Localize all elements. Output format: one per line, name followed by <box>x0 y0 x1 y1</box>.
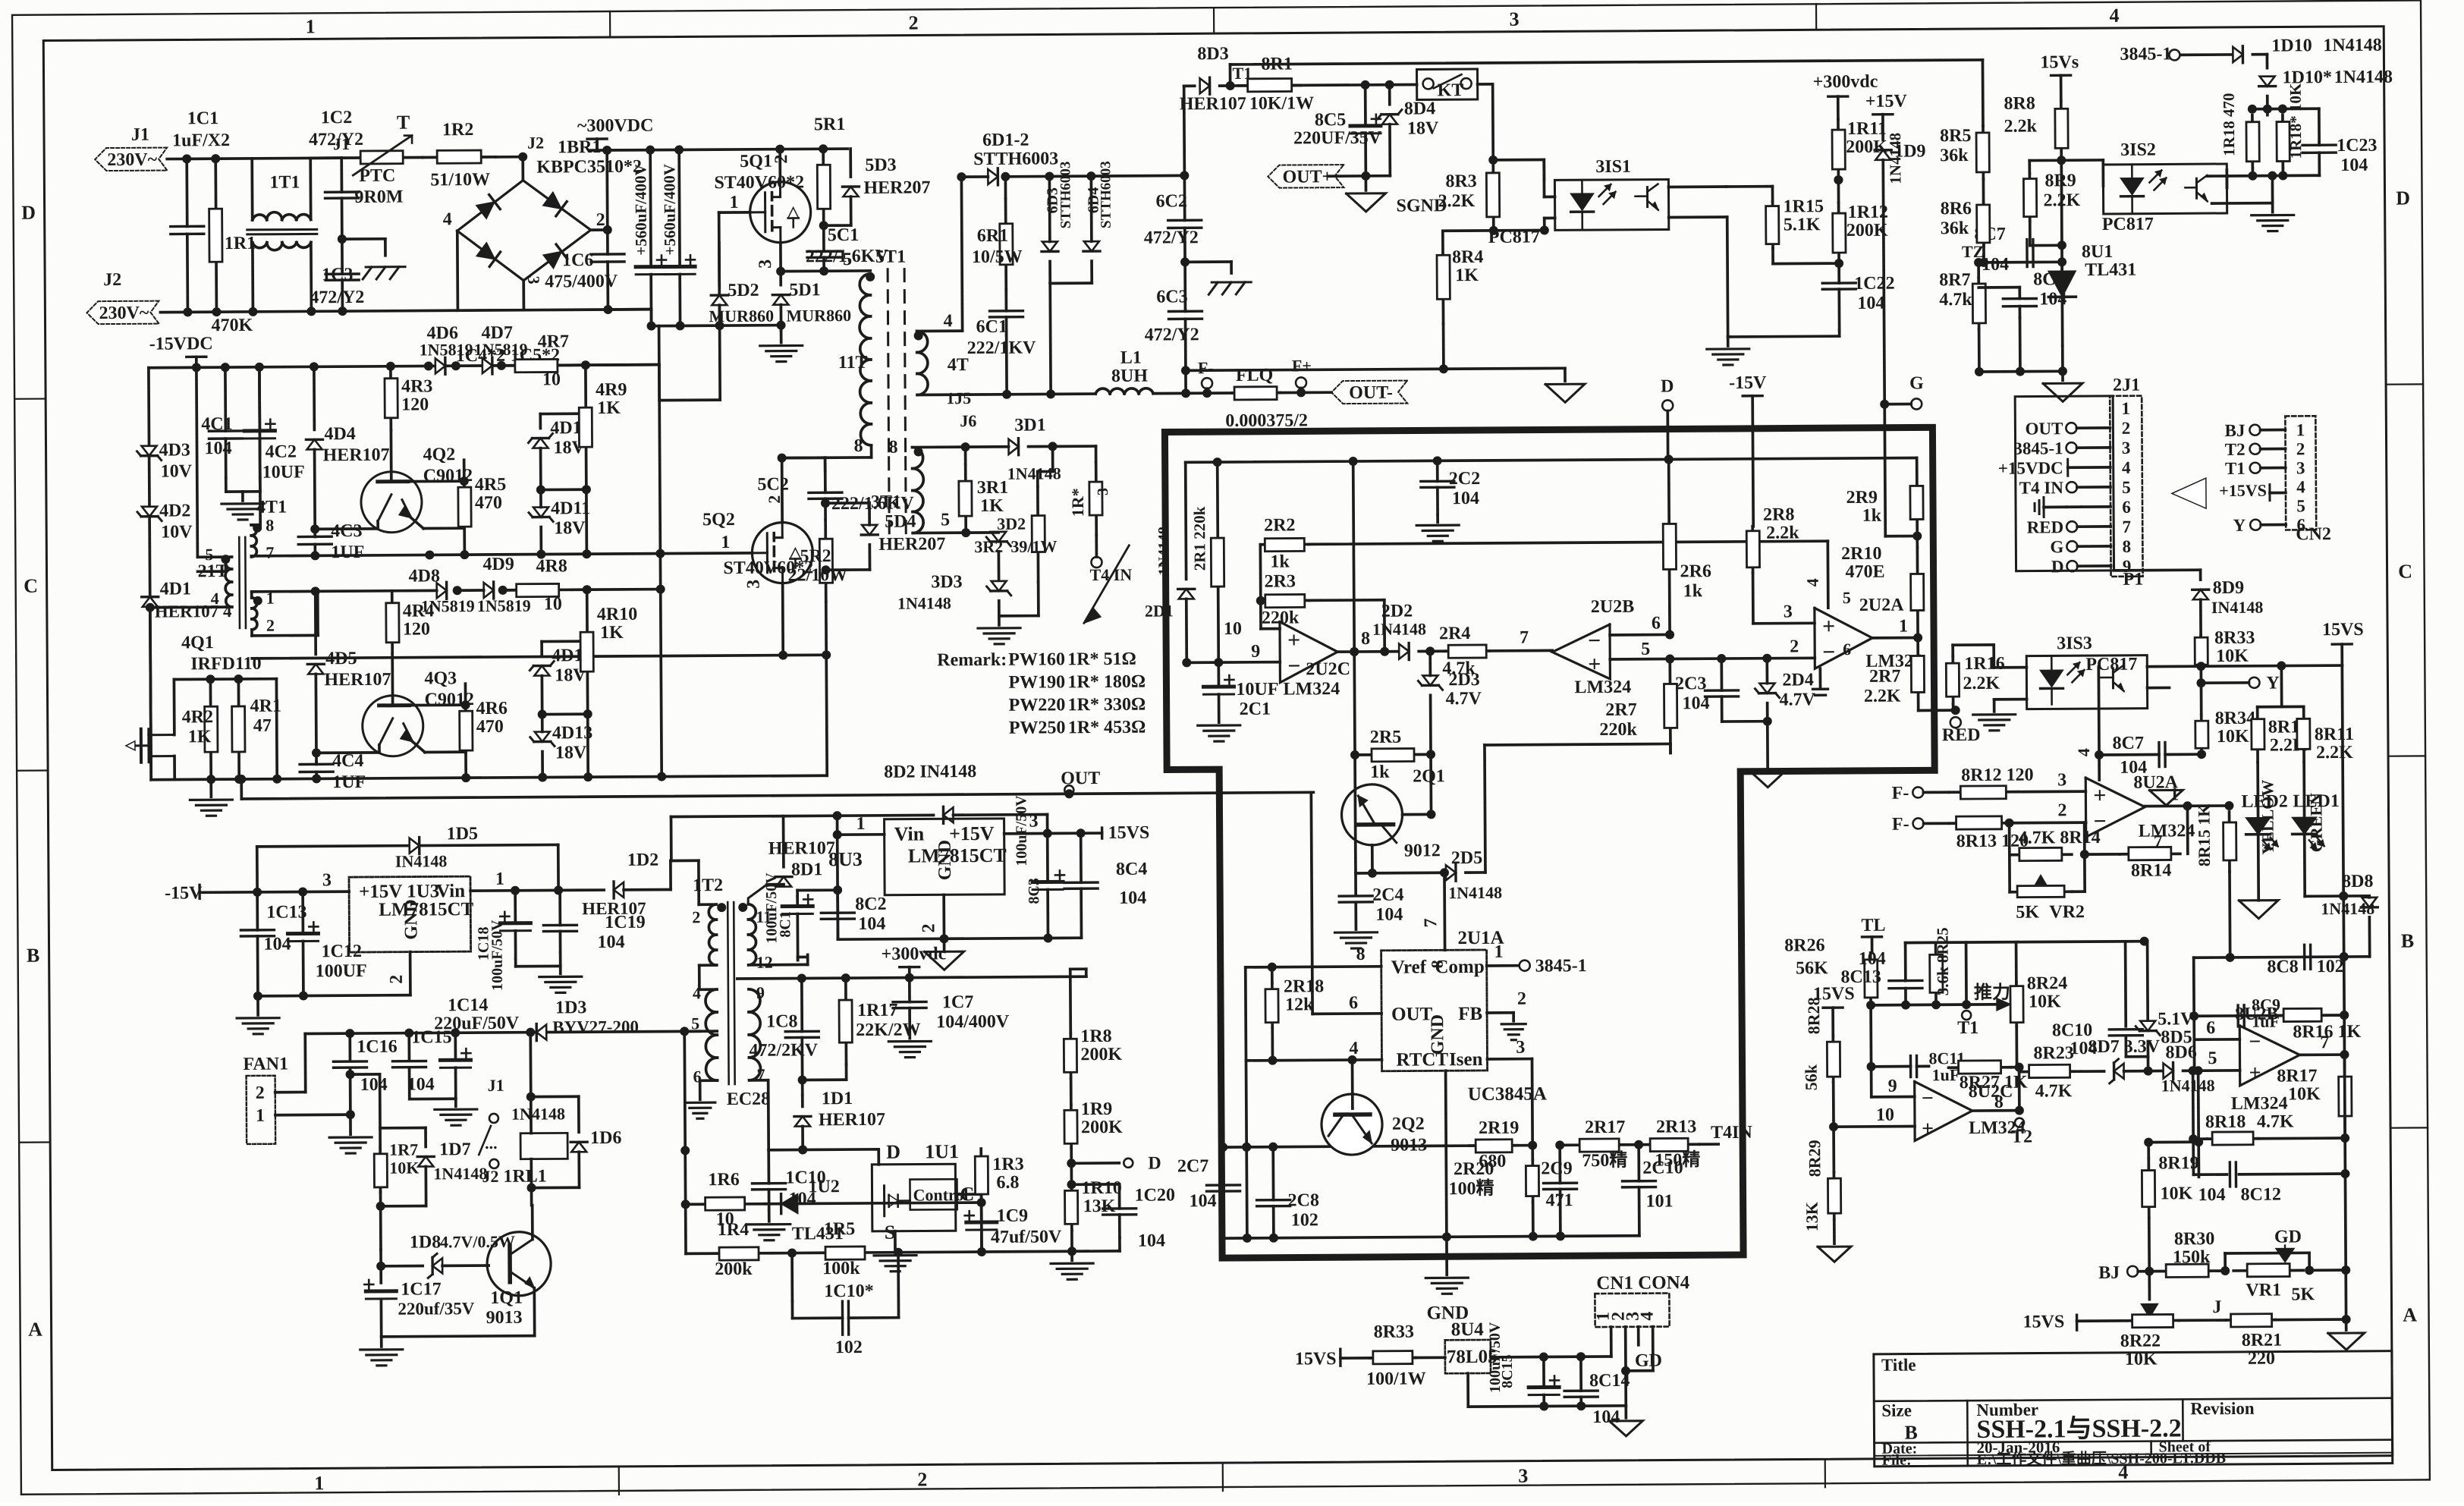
wire 2C4 top <box>1355 755 1356 894</box>
svg-text:+15V: +15V <box>949 822 995 844</box>
diode 1D10 <box>2233 36 2382 63</box>
svg-text:4D11: 4D11 <box>551 498 590 518</box>
svg-text:J2: J2 <box>527 134 544 152</box>
capacitor 8C13 <box>1840 942 1922 1005</box>
svg-text:8C4: 8C4 <box>1116 860 1148 879</box>
resistor 8R33 100 <box>1366 1322 1426 1388</box>
wire 6R1 top <box>961 172 1010 199</box>
svg-text:1C6: 1C6 <box>562 250 594 270</box>
svg-text:22/10W: 22/10W <box>787 565 847 585</box>
diode 1D5 <box>395 824 479 871</box>
svg-text:1C2: 1C2 <box>321 108 353 127</box>
capacitor 5C2 <box>757 457 914 520</box>
svg-text:1C12: 1C12 <box>322 942 363 961</box>
diode 6D1-2 <box>961 130 1058 185</box>
svg-text:D: D <box>2051 557 2064 576</box>
wire box top rail <box>1186 453 1917 467</box>
label CN1 CON4 <box>1596 1272 1690 1294</box>
wire <box>798 957 808 960</box>
regulator 8U3 LM7815CT <box>828 819 1007 895</box>
svg-text:5K: 5K <box>2291 1284 2315 1304</box>
svg-text:1k: 1k <box>1683 581 1703 601</box>
transistor 3IS3 <box>2101 665 2123 691</box>
svg-text:2R10: 2R10 <box>1841 544 1882 564</box>
diode 2D2 <box>1372 601 1426 659</box>
svg-text:2D1: 2D1 <box>1145 601 1174 620</box>
wire P1 to 8D9 <box>2114 570 2201 580</box>
svg-text:4R9: 4R9 <box>596 380 627 400</box>
wire 1R18 top <box>2248 96 2319 115</box>
capacitor 2C8 <box>1256 1146 1319 1238</box>
svg-text:6.8: 6.8 <box>996 1173 1019 1193</box>
wire <box>546 1031 699 1032</box>
svg-text:104: 104 <box>204 439 231 458</box>
svg-text:200K: 200K <box>1846 221 1888 241</box>
svg-text:1R4: 1R4 <box>718 1220 750 1240</box>
svg-text:8C3: 8C3 <box>1026 878 1042 904</box>
svg-text:8R26: 8R26 <box>1784 935 1825 955</box>
resistor 8R17 bus <box>2277 1055 2352 1139</box>
wire pin3 2U2A <box>1753 572 1815 623</box>
wire 3IS2 collector to 1R18 <box>2207 174 2227 178</box>
terminal D mid <box>1124 1159 1133 1168</box>
svg-text:F-: F- <box>1892 784 1909 803</box>
svg-text:8: 8 <box>266 516 274 535</box>
diode 1D2 <box>582 850 659 919</box>
svg-text:1R11: 1R11 <box>1847 119 1887 139</box>
svg-text:1: 1 <box>1494 942 1504 962</box>
svg-text:3: 3 <box>1784 602 1793 621</box>
wire 8U4 out row <box>1491 1352 1611 1362</box>
terminal 3845-1 <box>2120 44 2232 64</box>
svg-text:8C10: 8C10 <box>2052 1020 2093 1040</box>
svg-text:8R29: 8R29 <box>1805 1140 1824 1177</box>
svg-text:1D8: 1D8 <box>410 1232 442 1252</box>
wire 8U4 gnd row <box>1468 1372 1626 1411</box>
wire <box>276 590 662 779</box>
wire 1C22 bottom <box>1728 330 1840 337</box>
ground 3IS3 LED <box>1973 700 2027 731</box>
wire 15VS collector line <box>2147 661 2342 671</box>
svg-text:J1: J1 <box>333 134 350 153</box>
terminal D top <box>1661 376 1674 464</box>
svg-text:~300VDC: ~300VDC <box>577 116 654 137</box>
label 8R28 value <box>1802 1064 1821 1090</box>
regulator 1U3 <box>349 876 474 952</box>
svg-text:8R34: 8R34 <box>2215 709 2256 728</box>
svg-text:8R9: 8R9 <box>2044 171 2076 190</box>
svg-text:4: 4 <box>2110 5 2120 27</box>
svg-text:4R10: 4R10 <box>597 605 638 624</box>
wire <box>1446 1071 1447 1237</box>
potentiometer VR2 <box>2010 875 2085 923</box>
svg-text:9: 9 <box>756 983 765 1002</box>
wire 1D2 right <box>624 861 671 890</box>
wire to 5C2 <box>782 457 825 471</box>
label pin9 <box>1251 642 1260 662</box>
svg-text:1k: 1k <box>1370 762 1390 782</box>
svg-text:4: 4 <box>1803 578 1822 586</box>
wire left fb col <box>2008 823 2011 892</box>
svg-text:4T: 4T <box>948 355 969 375</box>
svg-text:EC28: EC28 <box>727 1089 771 1109</box>
wire 1C17 bottom <box>380 1300 383 1337</box>
capacitor 4C2 <box>244 366 305 482</box>
svg-text:18V: 18V <box>1407 118 1439 138</box>
svg-text:HER107: HER107 <box>819 1110 885 1130</box>
svg-text:102: 102 <box>835 1338 863 1357</box>
svg-text:T1: T1 <box>1957 1018 1978 1038</box>
capacitor 8C7 right <box>2095 733 2206 778</box>
wire 8C8 row <box>2194 952 2370 962</box>
capacitor 8C6 <box>2003 269 2066 318</box>
capacitor 8C2 <box>821 890 887 940</box>
svg-text:56k: 56k <box>1802 1064 1821 1090</box>
wire 300vdc rail <box>737 972 1086 983</box>
wire 1C18 19 join <box>516 952 561 969</box>
label 8D2 <box>884 762 976 782</box>
label tuili arrow <box>1974 983 2010 1011</box>
wire 5R2 bottom column <box>822 602 831 775</box>
svg-text:2.2K: 2.2K <box>1963 674 2000 693</box>
wire 1C20 gnd <box>1088 1250 1120 1253</box>
svg-text:104: 104 <box>263 935 291 954</box>
svg-text:200K: 200K <box>1080 1045 1122 1064</box>
svg-text:1D1: 1D1 <box>822 1089 853 1108</box>
svg-text:1J5: 1J5 <box>946 388 971 407</box>
wire up to 8D3 <box>1184 86 1196 175</box>
diode 4D1 <box>142 579 232 621</box>
svg-text:D: D <box>886 1141 900 1163</box>
ground EC28 <box>685 1089 771 1119</box>
wire 8R21 to bus <box>2276 1315 2351 1325</box>
wire to bridge <box>495 134 544 162</box>
svg-text:2: 2 <box>692 907 700 926</box>
wire sec gnd row <box>1186 322 1565 375</box>
svg-text:-15V: -15V <box>1729 373 1767 393</box>
svg-text:10/5W: 10/5W <box>972 247 1023 267</box>
svg-text:2: 2 <box>266 616 275 635</box>
svg-text:3: 3 <box>756 259 775 269</box>
diode 4D9 <box>476 555 530 615</box>
svg-text:8D9: 8D9 <box>2213 578 2245 598</box>
internals 1U1 <box>884 1186 910 1216</box>
wire 2Q1 base <box>1402 810 1435 819</box>
svg-text:1k: 1k <box>1270 552 1290 572</box>
svg-text:1: 1 <box>856 814 865 834</box>
wire 8R28 down <box>1829 1082 1839 1172</box>
wire 8R18 row left <box>2144 1137 2193 1146</box>
wire to 1T2 pin2 <box>671 859 699 862</box>
svg-text:HER207: HER207 <box>863 178 930 198</box>
svg-text:1R17: 1R17 <box>857 1001 898 1020</box>
svg-text:1R3: 1R3 <box>992 1155 1024 1174</box>
wire 5Q1 source <box>776 243 785 276</box>
wire 2R3 feedback <box>1309 600 1389 657</box>
svg-text:13K: 13K <box>1083 1196 1116 1216</box>
svg-text:8: 8 <box>888 438 897 457</box>
svg-text:3R1: 3R1 <box>977 478 1009 498</box>
svg-text:1D7: 1D7 <box>439 1140 471 1159</box>
resistor 8R7 <box>1939 270 1985 329</box>
wire AC bottom <box>160 310 524 313</box>
dot 4D5 <box>311 586 320 596</box>
svg-text:120: 120 <box>401 395 429 414</box>
svg-text:LM7815CT: LM7815CT <box>379 899 473 920</box>
ground 8R29 <box>1818 1219 1851 1262</box>
transformer 1T2 winding 4-6 <box>691 983 718 1086</box>
svg-text:STTH6003: STTH6003 <box>1058 162 1074 229</box>
transformer 4T1 winding 8-7 <box>251 516 274 562</box>
svg-text:1C23: 1C23 <box>2337 136 2378 156</box>
svg-text:104: 104 <box>1190 1191 1217 1211</box>
wire 4Q2 base node <box>391 460 469 486</box>
svg-text:4R5: 4R5 <box>475 475 507 495</box>
shunt 1U2 TL431 <box>765 1177 844 1244</box>
svg-text:2: 2 <box>2122 419 2131 438</box>
wire 1Q1 emitter <box>533 1288 536 1336</box>
wire 4 bottom rail <box>151 771 827 784</box>
resistor 4R7 <box>501 332 570 390</box>
wire return row <box>252 655 826 659</box>
svg-text:9: 9 <box>2123 557 2132 576</box>
capacitor 1C23 <box>2302 136 2378 176</box>
wire 4 left col <box>149 368 151 780</box>
wire <box>1670 744 1671 753</box>
svg-text:4.7K: 4.7K <box>2257 1111 2294 1131</box>
svg-text:3: 3 <box>2122 439 2131 457</box>
wire VR1 loop <box>2220 1253 2314 1275</box>
svg-text:4: 4 <box>443 209 452 229</box>
wire 4Q3 emitter <box>312 745 379 758</box>
wire GND stem <box>1446 1071 1447 1275</box>
svg-text:3: 3 <box>1518 1465 1528 1487</box>
svg-text:GD: GD <box>2274 1227 2302 1247</box>
wire <box>1834 175 1862 184</box>
title block <box>1874 1351 2393 1469</box>
diode 8D9 <box>2192 578 2264 618</box>
wire CON4 pin4 GD <box>1626 1327 1662 1371</box>
svg-text:Vin: Vin <box>894 822 925 844</box>
svg-text:Isen: Isen <box>1449 1049 1483 1070</box>
svg-text:1R16: 1R16 <box>1964 654 2005 674</box>
svg-text:150k: 150k <box>2173 1247 2211 1267</box>
diode 5D1 <box>772 271 851 331</box>
wire right bus upper <box>2337 665 2349 1055</box>
wire 1C16 bottom <box>349 1069 352 1115</box>
wire to OUT- <box>1280 391 1331 394</box>
pins CON4 <box>1594 1312 1658 1322</box>
label 8C3 <box>1026 878 1042 904</box>
svg-text:6: 6 <box>2296 515 2305 534</box>
diode 8D3 <box>1179 44 1246 115</box>
relay contact KT <box>1417 69 1478 100</box>
svg-text:4D2: 4D2 <box>159 501 191 520</box>
wire 2D5 feedback <box>1465 744 1671 872</box>
svg-text:OUT: OUT <box>1391 1004 1433 1024</box>
svg-text:-15VDC: -15VDC <box>149 334 213 354</box>
svg-text:+: + <box>1588 652 1601 677</box>
wire 1R10 bottom <box>1070 1230 1073 1251</box>
resistor 8R5 <box>1940 126 1989 179</box>
svg-text:1C10*: 1C10* <box>824 1281 874 1301</box>
optocoupler 3IS2 <box>2101 140 2227 234</box>
capacitor 1C10 <box>752 1149 826 1211</box>
svg-text:OUT: OUT <box>2026 419 2063 438</box>
wire pin2 col <box>2083 822 2086 891</box>
wire 8R16 right <box>2327 1014 2344 1017</box>
power +300vdc right <box>1813 72 1878 120</box>
wire <box>798 954 808 957</box>
wire 2R4 to 2U2B <box>1489 627 1552 651</box>
svg-text:2D4: 2D4 <box>1782 670 1814 690</box>
wire OUT bus <box>241 772 1313 803</box>
svg-text:-15V: -15V <box>165 883 203 903</box>
svg-text:1N5819: 1N5819 <box>421 596 475 615</box>
diode 1D7 <box>417 1127 488 1206</box>
wire 4 top rail <box>149 360 659 373</box>
resistor 1R15 <box>1766 197 1824 248</box>
capacitor 1C9 <box>965 1202 1062 1252</box>
capacitor 1C18 <box>475 891 531 991</box>
svg-text:8R4: 8R4 <box>1452 247 1484 267</box>
wire bridge bottom <box>522 281 525 310</box>
wire <box>1070 969 1086 976</box>
zener 1D8 <box>381 1232 515 1278</box>
resistor 1R1 <box>209 159 256 335</box>
transistor 1Q1 <box>486 1231 552 1328</box>
ground 1C7 <box>888 1027 931 1057</box>
svg-text:2: 2 <box>2057 800 2066 820</box>
resistor 8R8 <box>2004 93 2068 157</box>
resistor 3R2 <box>974 486 1058 582</box>
wire KT to 3IS1 <box>1478 83 1545 181</box>
terminal T2 <box>2011 1118 2032 1147</box>
capacitor 8C1 <box>763 872 813 960</box>
wire 4Q3 base node <box>393 700 470 710</box>
resistor 1R4 <box>686 1220 792 1280</box>
svg-text:1R7: 1R7 <box>389 1140 418 1159</box>
wire to 1R15 <box>1726 187 1772 202</box>
resistor 8R15 <box>2224 812 2236 872</box>
wire 15VS stub <box>2340 644 2343 665</box>
svg-text:15VS: 15VS <box>1108 823 1150 843</box>
resistor 2R2 <box>1260 515 1309 571</box>
wire 3T1 pin5 <box>913 528 970 537</box>
svg-text:+300vdc: +300vdc <box>882 944 947 964</box>
svg-text:8C1: 8C1 <box>777 911 794 938</box>
svg-text:104: 104 <box>2340 156 2368 175</box>
wire 1C20 <box>1067 1180 1120 1251</box>
svg-text:8R5: 8R5 <box>1940 126 1972 146</box>
svg-text:3.6k 8R25: 3.6k 8R25 <box>1933 927 1952 995</box>
transformer 1T2 winding 11-12 <box>738 903 773 972</box>
capacitor 1C3 <box>310 242 365 311</box>
wire pin10 <box>1223 545 1280 639</box>
svg-text:2: 2 <box>2296 439 2305 458</box>
svg-text:B: B <box>27 945 40 967</box>
resistor 8R14 fb <box>2120 832 2180 880</box>
diode 4D5 <box>307 591 391 762</box>
svg-text:472/Y2: 472/Y2 <box>1144 228 1199 247</box>
svg-text:100uF/50V: 100uF/50V <box>1013 795 1030 866</box>
label 8R15 <box>2194 804 2214 867</box>
svg-text:2R3: 2R3 <box>1265 571 1296 591</box>
wire <box>750 1075 761 1080</box>
wire 2R2 long feedback <box>1309 541 1828 544</box>
diode 2D5 <box>1446 848 1502 902</box>
wire OUT pin6 <box>1311 792 1381 1014</box>
svg-text:1C22: 1C22 <box>1854 274 1895 294</box>
svg-text:2D5: 2D5 <box>1451 848 1483 868</box>
resistor 5R1 <box>814 115 846 225</box>
wire <box>1916 457 1918 494</box>
resistor 8R21 <box>2227 1314 2283 1369</box>
svg-text:PW160: PW160 <box>1008 649 1065 669</box>
svg-text:BJ: BJ <box>2098 1263 2120 1283</box>
resistor 4R4 <box>386 590 435 653</box>
resistor 8R4 <box>1437 231 1484 323</box>
svg-text:2R17: 2R17 <box>1585 1118 1626 1137</box>
svg-text:8C2: 8C2 <box>855 894 887 914</box>
svg-text:4.7K: 4.7K <box>2035 1081 2073 1101</box>
wire <box>379 1099 381 1148</box>
svg-text:T2: T2 <box>2225 440 2246 459</box>
resistor 8R29 <box>1828 1172 1840 1219</box>
svg-text:5D1: 5D1 <box>789 280 821 300</box>
svg-text:2R1 220k: 2R1 220k <box>1190 506 1209 571</box>
flag OUT- <box>1331 381 1407 404</box>
ground 1C10 <box>748 1211 790 1240</box>
svg-text:1D5: 1D5 <box>447 824 479 844</box>
svg-text:470E: 470E <box>1845 562 1884 582</box>
capacitor 1C6 <box>524 230 652 315</box>
svg-text:1RL1: 1RL1 <box>503 1167 547 1187</box>
wire <box>2019 1071 2036 1073</box>
power +300vdc mid <box>882 944 947 978</box>
wire 1Q1 bottom row <box>382 1336 535 1337</box>
zener 3D2 <box>966 514 1026 582</box>
wire 21T pin4 <box>146 602 232 612</box>
svg-text:TL: TL <box>1861 916 1885 935</box>
op-amp 8U2A <box>2085 772 2195 841</box>
svg-text:4: 4 <box>1638 1312 1658 1321</box>
svg-text:2.2K: 2.2K <box>1438 191 1475 211</box>
wire <box>489 1264 510 1265</box>
resistor 8R24 <box>2010 973 2068 1026</box>
connector FAN1 <box>243 1055 288 1144</box>
svg-text:6: 6 <box>2122 498 2131 517</box>
wire 4D10 top <box>540 387 586 413</box>
svg-text:15VS: 15VS <box>1295 1349 1337 1369</box>
wire <box>670 554 671 817</box>
wire 8R9 join <box>2030 241 2066 250</box>
svg-text:4: 4 <box>943 311 952 331</box>
LED LED1 <box>2292 762 2324 896</box>
svg-text:1C20: 1C20 <box>1134 1185 1175 1205</box>
wire 8C12 row <box>2193 1169 2349 1179</box>
wire 4R9 bottom <box>536 485 592 554</box>
svg-text:3845-1: 3845-1 <box>2013 439 2063 457</box>
svg-text:1R* 51Ω: 1R* 51Ω <box>1067 649 1136 670</box>
wire 2Q1 emitter <box>1368 845 1377 878</box>
wire <box>2207 187 2227 188</box>
svg-text:8: 8 <box>2123 537 2132 556</box>
svg-text:5.1K: 5.1K <box>1784 215 1821 234</box>
svg-text:PW190: PW190 <box>1008 672 1065 692</box>
wire 8U3 vin <box>832 814 885 939</box>
svg-text:22K/2W: 22K/2W <box>856 1020 921 1041</box>
